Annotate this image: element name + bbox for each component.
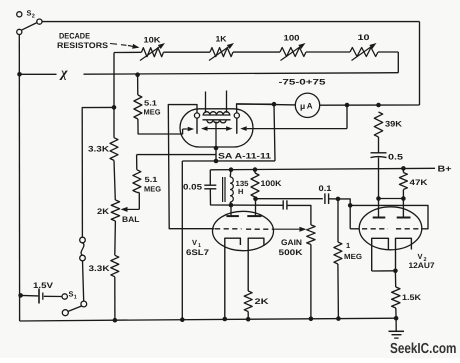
svg-text:47K: 47K <box>410 178 428 187</box>
svg-text:1.5V: 1.5V <box>33 281 54 290</box>
svg-text:39K: 39K <box>385 120 402 129</box>
svg-text:2K: 2K <box>97 207 109 216</box>
svg-text:1: 1 <box>346 241 350 250</box>
svg-text:H: H <box>238 187 243 196</box>
svg-text:2K: 2K <box>255 297 269 306</box>
svg-text:500K: 500K <box>279 248 303 257</box>
svg-text:100: 100 <box>284 34 301 43</box>
svg-text:MEG: MEG <box>144 185 161 194</box>
svg-text:0.1: 0.1 <box>319 184 333 193</box>
svg-text:12AU7: 12AU7 <box>409 261 436 270</box>
svg-text:GAIN: GAIN <box>281 238 302 247</box>
svg-text:V: V <box>192 238 197 247</box>
svg-text:χ: χ <box>59 66 68 81</box>
svg-text:0.5: 0.5 <box>388 153 404 162</box>
svg-text:10K: 10K <box>144 36 161 45</box>
svg-text:DECADE: DECADE <box>59 32 91 41</box>
svg-text:MEG: MEG <box>144 108 161 117</box>
svg-text:V: V <box>418 252 423 261</box>
svg-text:B+: B+ <box>438 164 452 174</box>
svg-text:MEG: MEG <box>344 252 362 261</box>
svg-text:5.1: 5.1 <box>145 175 158 184</box>
svg-text:100K: 100K <box>261 179 282 188</box>
svg-text:S: S <box>27 9 32 18</box>
svg-text:BAL: BAL <box>122 215 140 224</box>
svg-text:1: 1 <box>74 295 77 301</box>
svg-text:1.5K: 1.5K <box>402 293 421 302</box>
svg-text:6SL7: 6SL7 <box>186 248 210 257</box>
svg-text:SA A-11-11: SA A-11-11 <box>218 152 272 161</box>
svg-text:SeekIC.com: SeekIC.com <box>390 341 457 357</box>
svg-text:1K: 1K <box>216 35 227 44</box>
svg-text:0.05: 0.05 <box>183 183 203 192</box>
svg-text:2: 2 <box>32 14 35 20</box>
svg-text:A: A <box>307 101 313 110</box>
svg-text:3.3K: 3.3K <box>89 264 110 273</box>
svg-text:3.3K: 3.3K <box>88 145 109 154</box>
svg-text:S: S <box>69 290 74 299</box>
svg-text:5.1: 5.1 <box>144 99 157 108</box>
svg-text:-75-0+75: -75-0+75 <box>279 78 327 87</box>
svg-text:10: 10 <box>358 33 371 42</box>
svg-text:μ: μ <box>300 101 305 111</box>
svg-text:RESISTORS: RESISTORS <box>57 41 109 50</box>
